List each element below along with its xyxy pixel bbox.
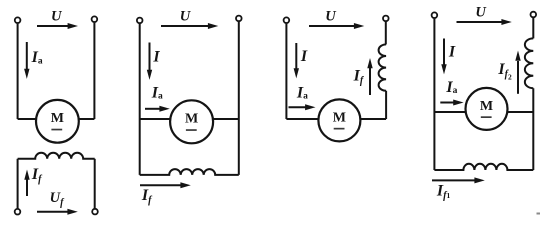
- arrow If: [367, 58, 372, 95]
- arrow Ia: [289, 104, 316, 110]
- stray mark: [537, 213, 540, 215]
- terminal top-right: [383, 16, 389, 22]
- svg-text:Ia: Ia: [31, 49, 43, 66]
- svg-text:If: If: [353, 68, 365, 87]
- svg-text:M: M: [480, 99, 493, 114]
- arrow U: [37, 23, 78, 29]
- terminal top-left: [137, 18, 143, 24]
- arrow U: [457, 19, 512, 25]
- svg-text:If: If: [31, 166, 43, 185]
- wire armature horizontal: [140, 118, 239, 120]
- shunt inductor Lf1: [434, 164, 533, 170]
- svg-text:Ia: Ia: [151, 84, 163, 101]
- terminal top-left: [15, 17, 21, 23]
- series inductor Lf: [379, 44, 386, 90]
- wire left: [433, 19, 435, 170]
- arrow Ia: [145, 106, 170, 112]
- terminal top-right: [531, 12, 537, 18]
- field inductor Lf: [18, 153, 95, 159]
- svg-text:Ia: Ia: [445, 79, 457, 96]
- svg-text:If1: If1: [436, 183, 451, 202]
- terminal bottom-right: [92, 209, 98, 215]
- wire right vertical lower: [385, 91, 387, 119]
- wire field right: [94, 159, 96, 209]
- wire right armature: [93, 23, 95, 119]
- motor M3: [318, 99, 360, 141]
- svg-text:U: U: [51, 8, 63, 24]
- svg-text:U: U: [475, 5, 487, 21]
- svg-text:Uf: Uf: [50, 190, 65, 208]
- field inductor bottom: [140, 169, 239, 175]
- underline M1: [51, 129, 62, 131]
- svg-text:M: M: [185, 112, 198, 127]
- arrow If1: [432, 177, 485, 183]
- svg-text:I: I: [152, 49, 160, 66]
- wire left armature: [17, 24, 19, 119]
- svg-text:M: M: [333, 110, 346, 125]
- series inductor Lf2: [525, 38, 533, 88]
- wire right lower: [532, 88, 534, 170]
- wire armature horizontal: [286, 118, 386, 120]
- arrow Ia: [440, 100, 463, 106]
- wire left: [139, 24, 141, 175]
- wire right: [238, 22, 240, 175]
- svg-text:I: I: [300, 48, 308, 65]
- arrow I: [147, 43, 152, 80]
- terminal bottom-left: [15, 209, 21, 215]
- arrow If: [140, 182, 191, 188]
- wire right top: [532, 18, 534, 39]
- underline M4: [481, 116, 492, 118]
- arrow U: [309, 23, 364, 29]
- svg-text:M: M: [51, 111, 64, 126]
- arrow If2: [515, 51, 520, 94]
- wire armature horizontal: [434, 111, 533, 113]
- arrow If: [24, 170, 29, 197]
- arrow Uf: [37, 209, 78, 215]
- svg-text:U: U: [325, 8, 337, 24]
- arrow Ia: [24, 42, 29, 79]
- motor M4: [466, 88, 508, 130]
- terminal top-left: [432, 12, 438, 18]
- terminal top-right: [236, 16, 242, 22]
- motor M2: [170, 100, 213, 143]
- wire right top: [385, 22, 387, 45]
- arrow I: [441, 39, 446, 75]
- underline M3: [334, 128, 345, 130]
- svg-text:I: I: [448, 43, 456, 60]
- arrow I: [294, 43, 299, 78]
- svg-text:Ia: Ia: [296, 84, 308, 101]
- underline M2: [186, 129, 197, 131]
- terminal top-right: [92, 16, 98, 22]
- terminal top-left: [284, 17, 290, 23]
- wire field left: [17, 159, 19, 209]
- svg-text:If2: If2: [497, 61, 512, 82]
- wire left: [285, 24, 287, 119]
- arrow U: [161, 23, 218, 29]
- svg-text:If: If: [141, 187, 153, 206]
- motor M1: [36, 100, 79, 143]
- svg-text:U: U: [180, 8, 192, 24]
- wire armature horizontal: [18, 118, 95, 120]
